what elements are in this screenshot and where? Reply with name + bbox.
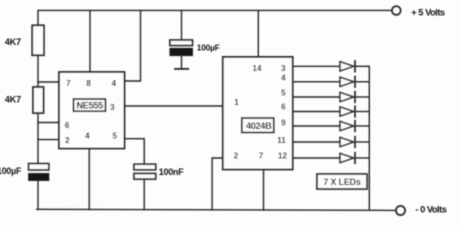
svg-text:14: 14 [253,64,262,73]
capacitor C3 100nF bottom plate [134,174,156,180]
C2 end bar [175,68,188,70]
svg-text:2: 2 [65,136,70,145]
svg-text:100µF: 100µF [197,43,220,53]
svg-text:9: 9 [281,119,286,128]
svg-text:4K7: 4K7 [5,94,21,104]
svg-text:4024B: 4024B [246,121,272,131]
svg-text:7 X LEDs: 7 X LEDs [323,177,361,187]
svg-text:7: 7 [259,151,264,160]
svg-text:- 0 Volts: - 0 Volts [415,204,446,214]
LED D5 anode wire [293,125,340,127]
wire rail to 4024 pin 14 [257,10,259,57]
terminal 0 Volts [396,206,405,215]
wire rail to pin 8 [89,10,91,72]
wire NE555 ground pin to 0V rail [88,149,90,210]
wire to NE555 pin6 [38,122,59,124]
svg-text:5: 5 [112,131,117,140]
resistor R1 4K7 [32,25,44,55]
LED D1 anode wire [293,65,340,67]
wire C3 to 0V rail [143,179,145,210]
svg-text:4: 4 [85,131,90,140]
LED D6 [340,137,354,146]
wire junction to NE555 pin7 [38,81,59,83]
svg-text:100nF: 100nF [159,167,184,177]
capacitor C3 100nF top plate [134,164,156,170]
wire R2 to C1 [37,113,39,164]
svg-text:6: 6 [281,103,286,112]
resistor R2 4K7 [33,87,44,113]
LED D2 [340,77,354,86]
svg-text:5: 5 [281,89,286,98]
LED D4 anode wire [293,111,340,113]
svg-text:4K7: 4K7 [5,37,21,47]
svg-text:11: 11 [277,136,286,145]
wire LED cathode rail [368,66,370,210]
svg-text:1: 1 [234,98,239,107]
wire pin 3 to 4024 pin 1 [125,105,223,107]
LED D3 [340,92,354,101]
LED D3 anode wire [293,96,340,98]
LED D6 anode wire [293,141,340,143]
LED D7 anode wire [293,157,340,159]
svg-text:3: 3 [110,103,115,112]
capacitor C1 100uF bottom plate [29,174,49,181]
wire pin 5 to C3 [125,139,145,165]
svg-text:+ 5 Volts: + 5 Volts [411,7,445,17]
svg-text:7: 7 [66,79,71,88]
wire to NE555 pin2 [38,139,59,141]
LED D4 [340,107,354,116]
wire pin 4 to rail [125,10,141,81]
IC U1 NE555 box [59,72,125,149]
IC U2 4024B box [223,57,293,170]
wire R1 to junction [37,55,39,87]
wire C2 lower lead [181,56,183,69]
LED D1 [340,62,354,71]
svg-text:4: 4 [281,73,286,82]
wire bottom 0V rail [37,209,396,210]
capacitor C1 100uF top plate [29,164,49,170]
terminal +5 Volts [392,6,401,15]
capacitor C2 100uF top plate [170,40,193,46]
svg-text:3: 3 [281,64,286,73]
svg-text:4: 4 [112,79,117,88]
LED D7 [340,153,354,162]
wire C1 to 0V rail [37,181,39,210]
svg-text:100µF: 100µF [0,166,22,176]
U1 name box [74,99,106,111]
svg-text:2: 2 [234,151,239,160]
LED D5 [340,121,354,130]
wire rail to R1 [37,10,39,25]
svg-text:8: 8 [86,79,91,88]
svg-text:12: 12 [278,152,287,161]
LED D2 anode wire [293,81,340,83]
svg-text:6: 6 [65,121,70,130]
label box 7 X LEDs [317,174,367,189]
wire top +5V rail [38,9,391,11]
wire 4024 pin 7 to 0V rail [263,170,265,211]
svg-text:NE555: NE555 [77,101,104,111]
U2 name box [242,118,274,133]
wire rail to C2 [181,10,183,40]
capacitor C2 100uF bottom plate [170,48,193,55]
wire 4024 pin 2 to 0V rail [212,158,223,210]
